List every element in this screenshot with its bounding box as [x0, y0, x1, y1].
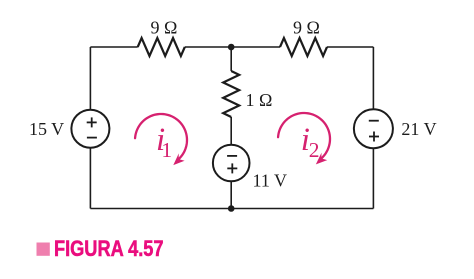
svg-text:1 Ω: 1 Ω — [246, 90, 273, 110]
svg-text:FIGURA 4.57: FIGURA 4.57 — [54, 236, 164, 261]
svg-text:21 V: 21 V — [401, 119, 436, 139]
svg-text:9 Ω: 9 Ω — [151, 18, 178, 38]
svg-text:11 V: 11 V — [253, 171, 288, 191]
svg-text:15 V: 15 V — [29, 119, 64, 139]
svg-text:9 Ω: 9 Ω — [293, 18, 320, 38]
